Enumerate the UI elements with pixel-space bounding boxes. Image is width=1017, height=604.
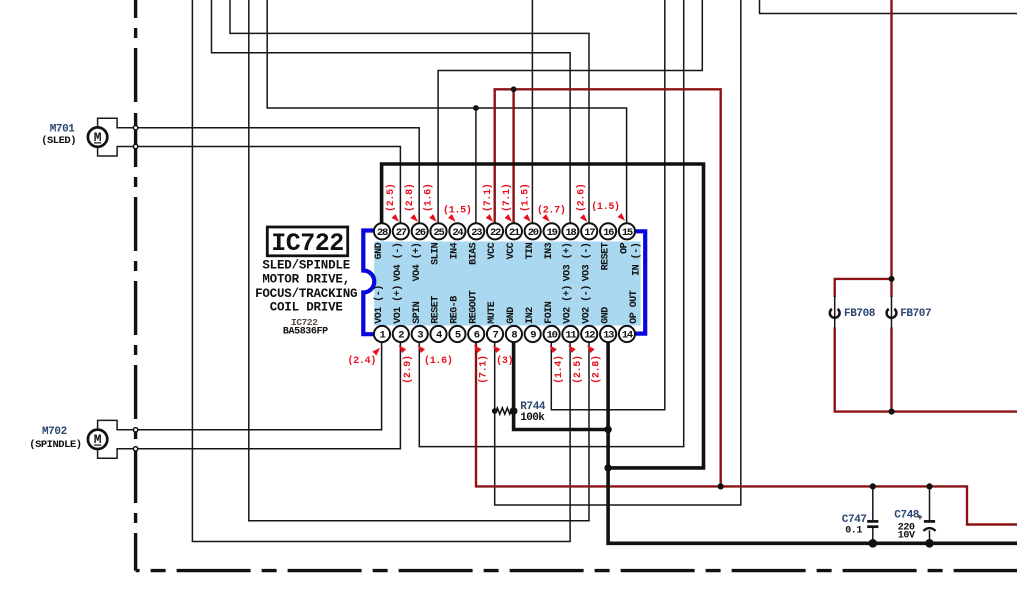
svg-text:VCC: VCC xyxy=(506,242,517,259)
wire FB708 branch (red) xyxy=(835,279,892,297)
wire pin 20 net straight to top edge xyxy=(531,0,533,231)
wire VCC net pins 22/21 (red) xyxy=(495,89,721,486)
svg-text:(1.6): (1.6) xyxy=(424,355,453,367)
wire pin 12 net (down, left, up to top edge) xyxy=(249,0,589,521)
svg-text:VO2 (-): VO2 (-) xyxy=(580,285,592,324)
wire pin 18 net (up, left, up to top edge) xyxy=(212,0,571,231)
svg-text:(3): (3) xyxy=(496,355,513,367)
wire C748 leads xyxy=(929,486,931,520)
capacitor C748 (polarized) xyxy=(924,520,935,523)
capacitor C747 xyxy=(867,520,878,523)
wire pin 6 net (red, bottom power rail) xyxy=(476,334,1017,525)
IC U722 blue outline right xyxy=(635,231,646,333)
svg-text:OP: OP xyxy=(620,242,631,254)
svg-text:27: 27 xyxy=(396,227,407,239)
svg-text:SLED/SPINDLE: SLED/SPINDLE xyxy=(262,259,350,273)
wire BIAS net pin 23 / pin 15 / top edge xyxy=(267,0,626,231)
wire GND bar pin 28 over IC and down right side xyxy=(382,164,704,468)
svg-text:16: 16 xyxy=(603,227,614,239)
svg-text:M701: M701 xyxy=(50,123,76,135)
wire M701 upper terminal to pin 26 xyxy=(136,128,420,232)
svg-text:(1.5): (1.5) xyxy=(591,201,620,213)
wire pin 25 net (up, right, up to top edge) xyxy=(438,0,702,231)
svg-text:VO2 (+): VO2 (+) xyxy=(562,285,574,324)
IC pin circles with numbers 1-28 xyxy=(374,326,390,342)
svg-text:23: 23 xyxy=(471,227,482,239)
svg-text:VO4 (-): VO4 (-) xyxy=(392,243,404,282)
IC U722 blue outline left with pin-1 notch xyxy=(363,231,374,335)
wire top right corner net xyxy=(760,0,1017,14)
svg-text:GND: GND xyxy=(374,242,385,259)
svg-text:(2.7): (2.7) xyxy=(537,205,566,217)
svg-text:0.1: 0.1 xyxy=(845,526,862,537)
svg-text:(SLED): (SLED) xyxy=(41,135,76,147)
svg-text:(2.4): (2.4) xyxy=(348,355,377,367)
svg-text:10V: 10V xyxy=(898,531,915,542)
wire GND pin 13 down to ground bus xyxy=(608,334,1017,543)
svg-text:GND: GND xyxy=(600,307,611,324)
svg-text:(1.4): (1.4) xyxy=(553,355,565,384)
svg-text:IN2: IN2 xyxy=(525,307,536,324)
svg-text:C747: C747 xyxy=(842,514,867,526)
svg-text:22: 22 xyxy=(490,227,501,239)
wire pin 7 net (down, right, up to top edge) xyxy=(495,0,741,505)
svg-text:(1.5): (1.5) xyxy=(443,205,472,217)
svg-text:(1.5): (1.5) xyxy=(520,183,532,212)
svg-text:VO1 (+): VO1 (+) xyxy=(392,285,404,324)
svg-text:12: 12 xyxy=(584,330,595,342)
svg-text:25: 25 xyxy=(433,227,444,239)
svg-text:OP OUT: OP OUT xyxy=(629,290,640,324)
IC722 designator box xyxy=(267,227,347,256)
IC U722 body fill xyxy=(374,242,640,326)
wire pin 3 net (down, right, up to top edge) xyxy=(419,0,683,447)
svg-text:RESET: RESET xyxy=(431,296,442,324)
wire pin 10 net (down, right, up to top edge) xyxy=(551,0,665,410)
svg-text:15: 15 xyxy=(622,227,633,239)
svg-text:M702: M702 xyxy=(42,426,67,438)
svg-text:FOCUS/TRACKING: FOCUS/TRACKING xyxy=(255,287,357,301)
wire FB707 branch (red, from top edge) xyxy=(890,0,892,297)
svg-text:REGOUT: REGOUT xyxy=(468,290,479,324)
wire C747 leads xyxy=(872,486,874,520)
svg-text:(SPINDLE): (SPINDLE) xyxy=(29,439,81,451)
motor M702 (SPINDLE) xyxy=(98,420,134,429)
svg-text:(7.1): (7.1) xyxy=(482,183,494,212)
svg-text:(7.1): (7.1) xyxy=(501,183,513,212)
svg-text:VCC: VCC xyxy=(487,242,498,259)
svg-text:BIAS: BIAS xyxy=(468,242,479,265)
svg-text:11: 11 xyxy=(565,330,576,342)
wire GND pin 8 to pin 13 xyxy=(514,334,609,430)
svg-text:RESET: RESET xyxy=(600,242,611,270)
svg-text:SPIN: SPIN xyxy=(412,301,423,324)
resistor R744 xyxy=(496,408,511,414)
svg-text:VO3 (+): VO3 (+) xyxy=(562,243,574,282)
svg-text:VO3 (-): VO3 (-) xyxy=(580,243,592,282)
svg-text:17: 17 xyxy=(584,227,595,239)
svg-text:COIL DRIVE: COIL DRIVE xyxy=(270,300,343,314)
svg-text:14: 14 xyxy=(622,330,633,342)
page border bottom (dash-dot) xyxy=(136,569,1017,572)
svg-text:MUTE: MUTE xyxy=(487,301,498,324)
wire M702 upper terminal to pin 1 xyxy=(136,334,382,430)
wire pin 11 net (down, left, up to top edge) xyxy=(192,0,570,542)
svg-text:FB707: FB707 xyxy=(900,308,931,320)
svg-text:(2.9): (2.9) xyxy=(402,355,414,384)
svg-text:IN4: IN4 xyxy=(450,242,461,259)
svg-text:26: 26 xyxy=(415,227,426,239)
svg-text:(2.8): (2.8) xyxy=(591,355,603,384)
svg-text:VO1 (-): VO1 (-) xyxy=(373,285,385,324)
ferrite bead FB708 xyxy=(830,309,840,318)
svg-text:VO4 (+): VO4 (+) xyxy=(411,243,423,282)
svg-text:21: 21 xyxy=(509,227,520,239)
svg-text:FB708: FB708 xyxy=(844,308,876,320)
motor terminal circles on border xyxy=(133,126,137,130)
svg-text:(2.8): (2.8) xyxy=(404,183,416,212)
wire FB bead pass-through leads xyxy=(834,296,836,329)
page border left (dash-dot) xyxy=(134,0,137,110)
svg-text:18: 18 xyxy=(565,227,576,239)
wire M701 lower terminal to pin 27 xyxy=(136,147,401,232)
wire M702 lower terminal to pin 2 xyxy=(136,334,401,449)
svg-text:GND: GND xyxy=(506,307,517,324)
wire pin 17 net (up, left, up to top edge) xyxy=(230,0,589,231)
svg-text:REG-B: REG-B xyxy=(450,296,461,324)
svg-text:(1.6): (1.6) xyxy=(423,183,435,212)
svg-text:+: + xyxy=(917,513,922,523)
svg-text:IN (-): IN (-) xyxy=(630,243,642,276)
svg-text:MOTOR DRIVE,: MOTOR DRIVE, xyxy=(262,273,350,287)
svg-text:SLIN: SLIN xyxy=(431,242,442,265)
svg-text:10: 10 xyxy=(547,330,558,342)
svg-text:20: 20 xyxy=(528,227,539,239)
svg-text:BA5836FP: BA5836FP xyxy=(283,326,328,337)
svg-text:C748: C748 xyxy=(894,510,920,522)
svg-text:100k: 100k xyxy=(520,412,545,424)
svg-text:13: 13 xyxy=(603,330,614,342)
svg-text:TIN: TIN xyxy=(525,242,536,259)
motor M701 (SLED) xyxy=(98,118,134,128)
ferrite bead FB707 xyxy=(887,309,897,318)
svg-text:(2.5): (2.5) xyxy=(385,183,397,212)
svg-text:24: 24 xyxy=(452,227,463,239)
svg-text:(7.1): (7.1) xyxy=(478,355,490,384)
svg-text:19: 19 xyxy=(547,227,558,239)
svg-text:FOIN: FOIN xyxy=(544,301,555,324)
junction dots xyxy=(511,86,517,92)
svg-text:(2.5): (2.5) xyxy=(572,355,584,384)
svg-text:28: 28 xyxy=(377,227,388,239)
svg-text:IC722: IC722 xyxy=(271,229,344,258)
svg-text:(2.6): (2.6) xyxy=(575,183,587,212)
svg-text:IN3: IN3 xyxy=(544,242,555,259)
